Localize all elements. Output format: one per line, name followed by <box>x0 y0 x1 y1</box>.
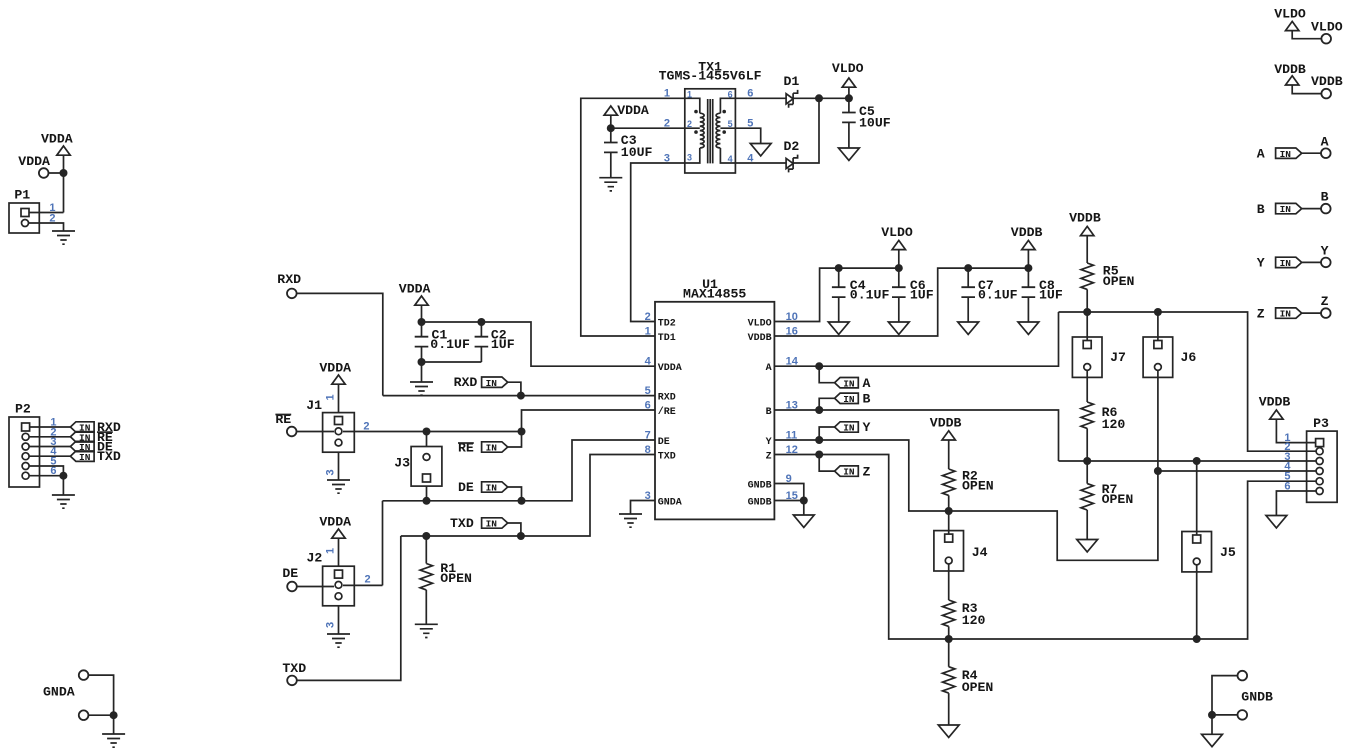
svg-text:VDDB: VDDB <box>748 333 772 344</box>
capacitor C6 <box>898 268 900 322</box>
svg-text:B: B <box>1321 190 1329 205</box>
node C4 top <box>835 264 843 272</box>
svg-text:B: B <box>863 392 871 407</box>
svg-text:2: 2 <box>645 311 651 323</box>
svg-text:1: 1 <box>645 325 651 337</box>
ground (triangle, C6) <box>888 322 909 334</box>
wire VDDA to J2 pin 1 <box>338 538 340 566</box>
svg-text:VLDO: VLDO <box>881 225 913 240</box>
node rail at J7 <box>1083 308 1091 316</box>
capacitor C8 <box>1027 268 1029 322</box>
wire VDDA to C1/C2 rail <box>421 305 423 322</box>
wire P3 pin 6 to ground <box>1276 491 1316 516</box>
svg-text:A: A <box>863 376 871 391</box>
transformer TX1 body <box>685 89 736 173</box>
svg-text:RXD: RXD <box>277 272 301 287</box>
svg-text:TGMS-1455V6LF: TGMS-1455V6LF <box>659 69 762 84</box>
ground (GNDA hatched, P2) <box>52 495 75 508</box>
svg-text:1UF: 1UF <box>1039 288 1063 303</box>
node DE row at flag <box>518 497 526 505</box>
svg-text:RXD: RXD <box>658 392 676 403</box>
ground (triangle, U1 GNDB) <box>793 515 814 527</box>
flag IN net Z (at U1) <box>835 466 859 478</box>
ground (GNDA hatched, C1) <box>410 382 433 395</box>
svg-text:2: 2 <box>365 574 371 586</box>
wire A flag <box>819 366 834 383</box>
svg-text:A: A <box>1321 134 1329 149</box>
wire net A : U1 pin 14 to J7/J6 rail <box>774 312 1058 366</box>
resistor R2 <box>948 440 950 511</box>
node VLDO/C5 <box>845 94 853 102</box>
resistor R1 <box>425 536 427 624</box>
svg-text:P3: P3 <box>1313 416 1329 431</box>
node VDDA junction <box>60 169 68 177</box>
svg-text:OPEN: OPEN <box>962 680 994 695</box>
wire TXD terminal to TXD row <box>297 536 401 680</box>
svg-text:1UF: 1UF <box>491 337 515 352</box>
wire DE terminal to J2 pin 2 <box>297 586 334 588</box>
node RE row at flag <box>518 428 526 436</box>
wire TX1 pin3 to U1 TD2 <box>631 163 685 322</box>
node GNDB pins junction <box>800 497 808 505</box>
svg-text:5: 5 <box>645 385 651 397</box>
svg-text:J6: J6 <box>1181 350 1197 365</box>
wire J1 pin 3 to ground <box>338 452 340 480</box>
flag IN net DE (P2 pin3) <box>70 441 94 453</box>
wire junction down to P1 pin 1 <box>63 173 65 213</box>
svg-text:0.1UF: 0.1UF <box>978 288 1018 303</box>
wire rail to J6 <box>1157 312 1159 341</box>
resistor R7 <box>1086 461 1088 540</box>
node rail at J6 <box>1154 308 1162 316</box>
svg-text:1: 1 <box>687 90 692 100</box>
wire GNDB pads to ground <box>1212 676 1238 735</box>
svg-text:Y: Y <box>1321 243 1329 258</box>
svg-text:10UF: 10UF <box>859 116 891 131</box>
ground (triangle, P3 pin6) <box>1266 516 1287 528</box>
svg-text:J2: J2 <box>307 551 323 566</box>
resistor R3 <box>943 600 955 626</box>
wire Z flag to pad <box>1302 312 1321 314</box>
wire A flag to pad <box>1302 152 1321 154</box>
svg-text:VDDA: VDDA <box>319 361 351 376</box>
wire P1 pin1 <box>29 212 64 214</box>
wire Y flag <box>819 427 834 440</box>
wire U1 GNDB pins 9/15 to ground <box>774 484 803 516</box>
ground (triangle, C5) <box>839 148 860 160</box>
power symbol VDDB (above R2) <box>942 431 955 440</box>
jumper J7 <box>1072 337 1102 377</box>
flag IN net A (at U1) <box>835 378 859 390</box>
wire TX1 pin4 to D2 <box>735 162 786 164</box>
wire net B : U1 pin 13 to rail1 <box>774 410 1058 461</box>
node P2 ground junction <box>59 472 67 480</box>
svg-text:VDDA: VDDA <box>617 103 649 118</box>
node TXD row at flag <box>517 532 525 540</box>
power symbol VDDA (above C1/C2) <box>415 296 428 305</box>
node DE row at J3 <box>423 497 431 505</box>
svg-text:P2: P2 <box>15 402 31 417</box>
wire C1/C2 top rail to U1 VDDA pin 4 <box>422 322 656 366</box>
wire P2 pin1 <box>30 426 71 428</box>
node Y net at R2/J4 <box>945 507 953 515</box>
transformer TX1 primary winding <box>685 98 704 163</box>
wire J3 bottom to DE row <box>426 486 428 501</box>
wire J2 pin 3 to ground <box>338 606 340 634</box>
svg-text:VDDA: VDDA <box>41 132 73 147</box>
wire U1 VDDB pin 16 to rail <box>774 268 1028 336</box>
wire J4 to R3 <box>948 564 950 600</box>
svg-text:TXD: TXD <box>658 451 676 462</box>
power symbol VDDB (at P3) <box>1270 410 1283 419</box>
node A junction <box>815 362 823 370</box>
svg-text:P1: P1 <box>14 188 30 203</box>
wire Z flag <box>819 455 834 472</box>
flag IN net TXD (P2 pin4) <box>70 451 94 463</box>
svg-text:DE: DE <box>658 437 670 448</box>
ground (triangle, TX1 pin5) <box>750 144 771 156</box>
node C6 top <box>895 264 903 272</box>
svg-text:D2: D2 <box>784 139 800 154</box>
ground (GNDA hatched, C3) <box>599 178 622 191</box>
wire P2 pin5 <box>29 466 63 476</box>
wire C1/C2 bottom rail <box>422 362 482 382</box>
node D1/D2 <box>815 94 823 102</box>
terminal A <box>1321 148 1331 158</box>
svg-text:1: 1 <box>325 394 337 400</box>
transformer TX1 phase dots <box>694 110 698 114</box>
svg-text:VLDO: VLDO <box>1311 19 1343 34</box>
svg-text:3: 3 <box>325 622 337 628</box>
wire RE terminal to J1 pin 2 <box>297 431 335 433</box>
wire B flag <box>819 398 834 410</box>
power symbol VDDA (above J2) <box>332 529 345 538</box>
ground (GNDA hatched, U1 pin3) <box>619 514 642 527</box>
node C7 top <box>964 264 972 272</box>
svg-text:1UF: 1UF <box>910 288 934 303</box>
wire J3 top to RE row <box>426 432 428 447</box>
svg-text:TXD: TXD <box>282 661 306 676</box>
svg-text:VDDA: VDDA <box>319 515 351 530</box>
terminal GNDA pad 2 <box>79 710 89 720</box>
svg-text:GNDB: GNDB <box>748 497 772 508</box>
svg-text:J3: J3 <box>394 456 410 471</box>
wire net Z : U1 pin 12 routed to bottom row <box>774 455 1316 640</box>
svg-text:7: 7 <box>645 429 651 441</box>
svg-text:DE: DE <box>458 480 474 495</box>
wire R2 node to J4 <box>948 511 950 534</box>
svg-text:VLDO: VLDO <box>748 318 772 329</box>
svg-text:0.1UF: 0.1UF <box>430 337 470 352</box>
capacitor C7 <box>967 268 969 322</box>
wire D2 cathode up to node <box>793 98 819 163</box>
node Z row at J5 <box>1193 635 1201 643</box>
svg-text:D1: D1 <box>784 74 800 89</box>
svg-text:VDDB: VDDB <box>1069 211 1101 226</box>
wire GNDA pads to ground <box>88 675 113 734</box>
svg-text:Y: Y <box>766 437 772 448</box>
node C2 top <box>477 318 485 326</box>
svg-text:Z: Z <box>1321 294 1329 309</box>
wire TXD flag to row <box>508 523 521 536</box>
wire VDDB terminal <box>1292 85 1321 94</box>
power symbol VDDA (above J1) <box>332 375 345 384</box>
node rail2 at J6 vertical <box>1154 467 1162 475</box>
svg-text:VLDO: VLDO <box>832 61 864 76</box>
wire P2 pin2 <box>29 436 70 438</box>
node RE row at J3 <box>423 428 431 436</box>
svg-text:VDDA: VDDA <box>399 282 431 297</box>
transformer TX1 secondary winding <box>716 98 735 163</box>
svg-text:OPEN: OPEN <box>962 479 994 494</box>
wire VDDA to J1 pin 1 <box>338 384 340 413</box>
node C1 bottom <box>418 358 426 366</box>
wire DE row down to J2 pin 2 <box>382 501 384 586</box>
power symbol VLDO (at C5) <box>842 78 855 87</box>
wire TX1 pin1 to U1 TD1 <box>581 98 685 336</box>
node B junction <box>815 406 823 414</box>
svg-text:TD2: TD2 <box>658 318 676 329</box>
wire RXD terminal to RXD row <box>297 293 383 395</box>
node RXD row junction <box>517 392 525 400</box>
wire net Y : U1 pin 11 routed to J6/R2 <box>774 371 1158 561</box>
ground (triangle, C8) <box>1018 322 1039 334</box>
svg-text:Z: Z <box>766 451 772 462</box>
wire Y flag to pad <box>1302 261 1321 263</box>
svg-text:J4: J4 <box>972 545 988 560</box>
capacitor C2 <box>480 322 482 362</box>
flag IN net RE (P2 pin2) <box>70 432 94 444</box>
wire RXD row to U1 pin 5 <box>383 395 655 397</box>
resistor R6 <box>1086 371 1088 461</box>
svg-text:GNDA: GNDA <box>43 685 75 700</box>
svg-text:GNDB: GNDB <box>748 480 772 491</box>
power symbol VDDB (above R5) <box>1081 226 1094 235</box>
node C1 top <box>418 318 426 326</box>
svg-text:Y: Y <box>1257 256 1265 271</box>
wire P2 pin4 <box>29 455 70 457</box>
ground (GNDA hatched, J1) <box>327 480 350 493</box>
svg-text:5: 5 <box>728 119 733 129</box>
capacitor C5 <box>848 98 850 148</box>
wire DE row <box>383 440 656 501</box>
ground (triangle, C4) <box>828 322 849 334</box>
svg-text:1: 1 <box>325 548 337 554</box>
wire U1 GNDA pin 3 to ground <box>631 501 656 515</box>
terminal Z <box>1321 308 1331 318</box>
wire TX1 pin6 to D1 <box>735 97 786 99</box>
power symbol VLDO (cap bank) <box>892 240 905 249</box>
ground (triangle, C7) <box>958 322 979 334</box>
svg-text:VDDB: VDDB <box>1274 62 1306 77</box>
wire J2 pin2 right <box>343 584 383 586</box>
svg-text:Y: Y <box>863 420 871 435</box>
wire J7/J6 rail <box>1059 312 1317 451</box>
svg-text:120: 120 <box>1102 417 1126 432</box>
wire VDDB to P3 pin 1 <box>1276 419 1315 443</box>
terminal GNDA pad 1 <box>79 670 89 680</box>
jumper J6 <box>1143 337 1173 377</box>
node Z junction <box>815 451 823 459</box>
power symbol VDDB (cap bank) <box>1022 240 1035 249</box>
flag IN net Y (at U1) <box>835 422 859 434</box>
wire RE row up to U1 /RE pin 6 <box>522 410 656 432</box>
wire rail1 to J5 <box>1196 461 1198 535</box>
node TX1 pin2 / C3 <box>607 124 615 132</box>
op-amp U1 body <box>655 302 774 520</box>
resistor R5 <box>1086 235 1088 312</box>
capacitor C1 <box>421 322 423 362</box>
svg-text:4: 4 <box>645 355 652 367</box>
wire VLDO terminal <box>1292 30 1321 38</box>
wire P2 pin3 <box>29 446 70 448</box>
svg-text:B: B <box>1257 202 1265 217</box>
svg-text:RXD: RXD <box>454 375 478 390</box>
svg-text:VDDB: VDDB <box>1011 225 1043 240</box>
resistor R4 <box>948 639 950 725</box>
svg-text:6: 6 <box>645 399 651 411</box>
terminal GNDB pad 2 <box>1238 710 1248 720</box>
svg-text:VDDB: VDDB <box>1311 74 1343 89</box>
wire VDDA terminal to junction <box>49 155 64 173</box>
svg-text:J5: J5 <box>1220 545 1236 560</box>
svg-text:3: 3 <box>687 152 692 162</box>
svg-text:A: A <box>1257 147 1265 162</box>
transformer TX1 core <box>708 99 713 163</box>
node Z net at R3/R4 <box>945 635 953 643</box>
terminal B <box>1321 204 1331 214</box>
svg-text:TXD: TXD <box>450 516 474 531</box>
svg-text:DE: DE <box>282 566 298 581</box>
svg-text:Z: Z <box>863 464 871 479</box>
ground (GNDA hatched, J2) <box>327 634 350 647</box>
svg-text:OPEN: OPEN <box>440 571 472 586</box>
svg-text:J1: J1 <box>306 398 322 413</box>
wire P2 pin6 <box>29 476 63 495</box>
wire J1 pin2 to RE row <box>343 431 522 433</box>
node rail1 at J5 <box>1193 457 1201 465</box>
wire B flag to pad <box>1302 208 1321 210</box>
wire U1 VLDO pin 10 to rail <box>774 268 898 321</box>
terminal GNDB pad 1 <box>1238 671 1248 681</box>
wire DE flag to row <box>508 487 522 501</box>
node TXD row at R1 <box>422 532 430 540</box>
svg-text:VDDB: VDDB <box>930 416 962 431</box>
flag IN net RXD (P2 pin1) <box>70 422 94 434</box>
flag IN net B (at U1) <box>835 393 859 405</box>
node rail1 at R6/R7 <box>1083 457 1091 465</box>
wire D1 cathode to VLDO node <box>793 97 849 99</box>
svg-text:TD1: TD1 <box>658 333 676 344</box>
node GNDA junction <box>110 711 118 719</box>
ground (triangle, GNDB terminal) <box>1202 734 1223 746</box>
wire rail2 to P3 pin 4 <box>1158 470 1316 472</box>
svg-text:OPEN: OPEN <box>1102 492 1134 507</box>
wire TXD row to U1 pin 8 <box>401 455 655 537</box>
svg-text:/RE: /RE <box>658 406 676 418</box>
node Y junction <box>815 436 823 444</box>
wire RXD flag to row <box>508 382 521 395</box>
svg-text:A: A <box>766 363 772 374</box>
ground (triangle, R4) <box>938 725 959 737</box>
capacitor C4 <box>838 268 840 322</box>
svg-text:VDDB: VDDB <box>1259 395 1291 410</box>
svg-text:8: 8 <box>645 444 651 456</box>
svg-text:2: 2 <box>687 119 692 129</box>
capacitor C3 <box>610 128 612 178</box>
wire rail to J7 <box>1086 312 1088 341</box>
wire J5 to Z bottom row <box>1196 565 1198 639</box>
svg-text:VLDO: VLDO <box>1274 7 1306 22</box>
svg-text:Z: Z <box>1257 306 1265 321</box>
svg-text:OPEN: OPEN <box>1103 274 1135 289</box>
svg-text:VDDA: VDDA <box>18 154 50 169</box>
svg-text:3: 3 <box>325 469 337 475</box>
svg-text:10UF: 10UF <box>621 145 653 160</box>
svg-text:6: 6 <box>728 90 733 100</box>
wire rail1 <box>1059 460 1317 462</box>
svg-text:4: 4 <box>728 154 733 164</box>
power symbol VDDA (at C3) <box>604 106 617 115</box>
ground (GNDA hatched, terminal) <box>102 734 125 747</box>
ground (triangle, R7) <box>1077 540 1098 552</box>
node GNDB junction <box>1208 711 1216 719</box>
svg-text:TXD: TXD <box>97 449 121 464</box>
svg-text:120: 120 <box>962 613 986 628</box>
ground (GNDA hatched, P1) <box>52 231 75 244</box>
svg-text:B: B <box>766 407 772 418</box>
jumper J4 <box>934 531 964 571</box>
terminal Y <box>1321 258 1331 268</box>
svg-text:0.1UF: 0.1UF <box>850 288 890 303</box>
power symbol VDDA (above P1) <box>57 146 70 155</box>
wire TX1 pin5 to ground <box>735 128 760 143</box>
wire P1 pin2 to ground <box>29 223 64 231</box>
wire TX1 pin2 to VDDA/C3 <box>611 127 685 129</box>
svg-text:VDDA: VDDA <box>658 363 682 374</box>
svg-text:GNDB: GNDB <box>1241 690 1273 705</box>
svg-text:GNDA: GNDA <box>658 497 682 508</box>
svg-text:2: 2 <box>363 420 369 432</box>
node C8 top <box>1024 264 1032 272</box>
wire RE flag to row <box>508 432 522 448</box>
ground (GNDA hatched, R1) <box>415 624 438 637</box>
svg-text:J7: J7 <box>1110 350 1126 365</box>
svg-text:MAX14855: MAX14855 <box>683 287 746 302</box>
jumper J5 <box>1182 532 1212 572</box>
